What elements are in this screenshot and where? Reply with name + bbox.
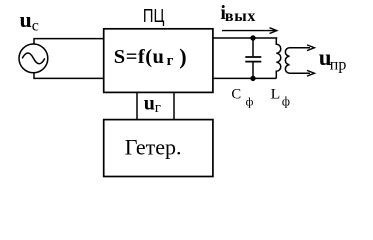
wire: mixer output bottom to tank — [212, 77, 276, 79]
label LФ — [271, 87, 290, 109]
svg-text:u: u — [144, 92, 155, 114]
wire: right gate lead from mixer to heterodyne — [173, 93, 175, 120]
svg-text:вых: вых — [225, 8, 256, 25]
label u_пр (IF output voltage) — [319, 45, 347, 74]
svg-text:г: г — [155, 100, 161, 116]
wire: source bottom to PC box — [34, 73, 104, 79]
node B (bottom junction dot) — [250, 76, 255, 81]
svg-text:ф: ф — [246, 94, 254, 108]
svg-text:c: c — [32, 18, 39, 35]
svg-text:C: C — [231, 87, 241, 103]
svg-text:г: г — [167, 53, 174, 69]
svg-text:пр: пр — [330, 57, 347, 74]
label i_вых (output current) — [220, 2, 256, 25]
capacitor CФ — [245, 38, 261, 78]
arrowhead: secondary bottom lead — [307, 70, 314, 76]
inductor LФ (tank coil, primary) — [276, 38, 281, 78]
svg-text:u: u — [20, 7, 32, 32]
svg-text:S=f(u: S=f(u — [114, 46, 165, 68]
transformer secondary winding — [285, 48, 310, 73]
label u_c (input signal voltage) — [20, 7, 39, 35]
formula S=f(u_г) inside mixer — [114, 44, 187, 69]
block U1: mixer box ПЦ — [104, 29, 213, 93]
label u_г (heterodyne voltage) — [144, 92, 161, 115]
svg-text:L: L — [271, 87, 281, 103]
wire: mixer output top to tank — [212, 37, 277, 39]
svg-text:ПЦ: ПЦ — [143, 6, 165, 26]
wire: source top to PC box — [34, 39, 104, 45]
AC source G1 (signal generator circle with sine) — [19, 44, 48, 73]
svg-text:Гетер.: Гетер. — [125, 134, 182, 159]
label CФ — [231, 87, 253, 109]
arrowhead: secondary top lead — [307, 45, 314, 51]
arrow: output current direction — [222, 28, 277, 34]
svg-text:): ) — [179, 44, 186, 69]
svg-text:ф: ф — [282, 94, 290, 108]
block G2: heterodyne box Гетер. — [104, 120, 213, 177]
wire: left gate lead from mixer to heterodyne — [136, 93, 138, 120]
node A (top junction dot) — [250, 35, 255, 40]
